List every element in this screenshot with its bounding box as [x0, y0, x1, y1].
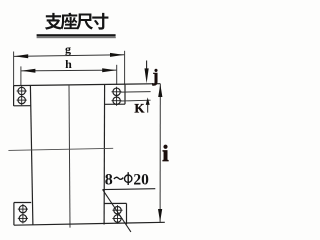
svg-text:j: j: [152, 65, 159, 85]
bolt holes bottom-left: [19, 205, 26, 212]
dim i bottom arrow: [158, 209, 162, 222]
bottom-left box top edge: [14, 202, 31, 204]
body left edge: [30, 86, 33, 226]
dim i line: [159, 84, 161, 222]
dim K arrow: [146, 97, 150, 105]
leader underline: [103, 188, 156, 191]
leader line: [103, 190, 131, 232]
bottom flange left edge: [13, 203, 15, 226]
dim g extension lines: [13, 52, 15, 86]
bolt line C: [121, 99, 151, 102]
bolt holes top-left: [18, 87, 25, 94]
body right edge: [103, 85, 106, 225]
dim i top arrow: [158, 84, 162, 97]
bolt line B: [121, 91, 151, 94]
dim h line: [21, 69, 116, 72]
dim j arrow: [146, 61, 148, 71]
svg-text:20: 20: [133, 171, 149, 188]
body centerline: [69, 85, 70, 228]
dim h extension lines: [20, 66, 22, 85]
svg-text:8: 8: [105, 171, 113, 188]
title underline: [37, 34, 116, 36]
section centerline horizontal: [8, 148, 113, 150]
dim g line: [14, 55, 124, 57]
dim h arrows: [21, 69, 35, 73]
bolt holes top-right: [113, 88, 120, 95]
svg-text:h: h: [65, 57, 72, 71]
title 支座尺寸: [45, 13, 62, 30]
bottom-right box top edge: [104, 202, 126, 204]
top-left box bottom edge: [14, 105, 31, 107]
bolt holes bottom-right: [114, 207, 121, 214]
top flange right edge: [124, 85, 126, 105]
top flange top edge: [14, 84, 161, 86]
top flange left edge: [13, 86, 15, 106]
bottom flange right edge: [126, 203, 128, 224]
dim g arrows: [14, 54, 28, 58]
bottom flange bottom edge: [14, 222, 165, 225]
svg-text:g: g: [65, 42, 71, 56]
top-right box bottom edge: [105, 103, 126, 105]
svg-text:K: K: [134, 100, 145, 115]
svg-text:i: i: [162, 141, 169, 166]
